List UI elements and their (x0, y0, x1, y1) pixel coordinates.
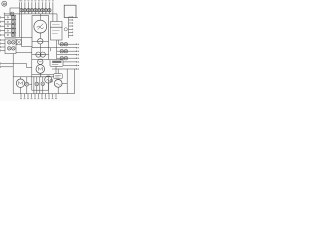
transformer T1 on top wire (10, 12, 14, 16)
contact lamp E1 (11, 16, 14, 19)
wire staircase (13, 64, 32, 68)
wire meter stubs (39, 14, 41, 39)
wire through B1 (32, 40, 49, 42)
lamp H14 (41, 77, 45, 94)
lamp H13 (35, 77, 39, 94)
enclosure K1 frame (left block) (10, 8, 32, 37)
connector X3 pins (left edge lower) (1, 39, 5, 52)
wire row r4 (57, 54, 77, 56)
contact lamp E3 (11, 25, 14, 28)
control box A3 (51, 27, 63, 40)
wire bottom bus (13, 93, 74, 95)
wire row r6 (63, 61, 77, 63)
wire top bus (4, 13, 57, 16)
wire box top upper (32, 74, 54, 76)
wire under B2 (32, 59, 50, 61)
lamp H12 (25, 77, 32, 94)
wire N1-N2 stub (55, 66, 57, 73)
lamp H8 (44, 9, 47, 12)
wire through B2 (32, 54, 49, 56)
wire bus drop (56, 14, 58, 22)
wire A3 drops (57, 40, 59, 59)
instrument B2a (36, 52, 41, 57)
lamp H4 (30, 9, 33, 12)
lamp H7 (41, 9, 44, 12)
meter P1 movement (34, 20, 47, 33)
wire row r7 (63, 65, 77, 67)
contact dots (7, 17, 8, 36)
generator G1 (45, 76, 53, 94)
instrument B2b (40, 52, 45, 57)
box U1 (top right) (64, 5, 78, 17)
contact lamp E4 (11, 29, 14, 32)
terminal strip X5 (right column) (69, 16, 73, 38)
coil lamp E6b (12, 41, 16, 45)
wire machine link (62, 82, 67, 84)
lamp H6 (37, 9, 40, 12)
wire left mid (16, 51, 32, 53)
lamp H9 (48, 9, 51, 12)
relay contact bank K2 rows (5, 15, 16, 37)
control box A2 (51, 22, 63, 28)
wire row r8 (52, 68, 77, 70)
pilot lamp H16 (64, 28, 67, 31)
frame bottom box (32, 77, 49, 90)
wire row r2 (main cross) (49, 47, 77, 49)
lamp H1 (20, 9, 23, 12)
relay coil block K3 (5, 39, 16, 54)
node a (circled letter top-left) (2, 1, 7, 6)
coil lamp E7b (12, 47, 16, 51)
wire left enclosure drop (31, 48, 33, 77)
motor M1 (36, 65, 45, 77)
meter P1 box (32, 16, 49, 48)
wire verticals bottom (34, 77, 40, 94)
coil lamp E7a (7, 47, 11, 51)
instrument B3 (38, 59, 43, 64)
generator G2 (bottom right) (54, 79, 62, 94)
instrument B1 (38, 39, 43, 48)
coil lamp E6a (7, 41, 11, 45)
label box N1 (50, 59, 63, 66)
lamp H3 (27, 9, 30, 12)
wire left drop (12, 54, 14, 94)
connector X7 pins (bottom edge) (20, 94, 57, 99)
wire row r1 with lamps H9a H9b (58, 43, 76, 46)
wire row r5 with lamps H11a H11b (57, 57, 77, 60)
connector end dots right (78, 44, 79, 70)
connector X2 pins (left edge upper) (1, 16, 5, 36)
connector X1 pins (top row) (19, 1, 54, 47)
wire bottom feeder (13, 76, 54, 78)
contact lamp E5 (11, 33, 14, 36)
lamp H5 (34, 9, 37, 12)
contact lamp E2 (11, 20, 14, 23)
wire right corner drop (74, 69, 76, 94)
motor M2 (bottom left) (16, 77, 24, 94)
connector X4 pins (left edge bottom) (1, 63, 14, 68)
fuse F1 (box with X) (17, 40, 22, 45)
wire meter edge drop (49, 48, 51, 60)
wire inner bus (21, 46, 32, 48)
label box N2 (54, 69, 62, 79)
wire stack stub (39, 48, 41, 52)
wire row r3 with lamps H10a H10b (57, 50, 77, 53)
lamp H2 (23, 9, 26, 12)
wire right drop long (66, 69, 68, 94)
